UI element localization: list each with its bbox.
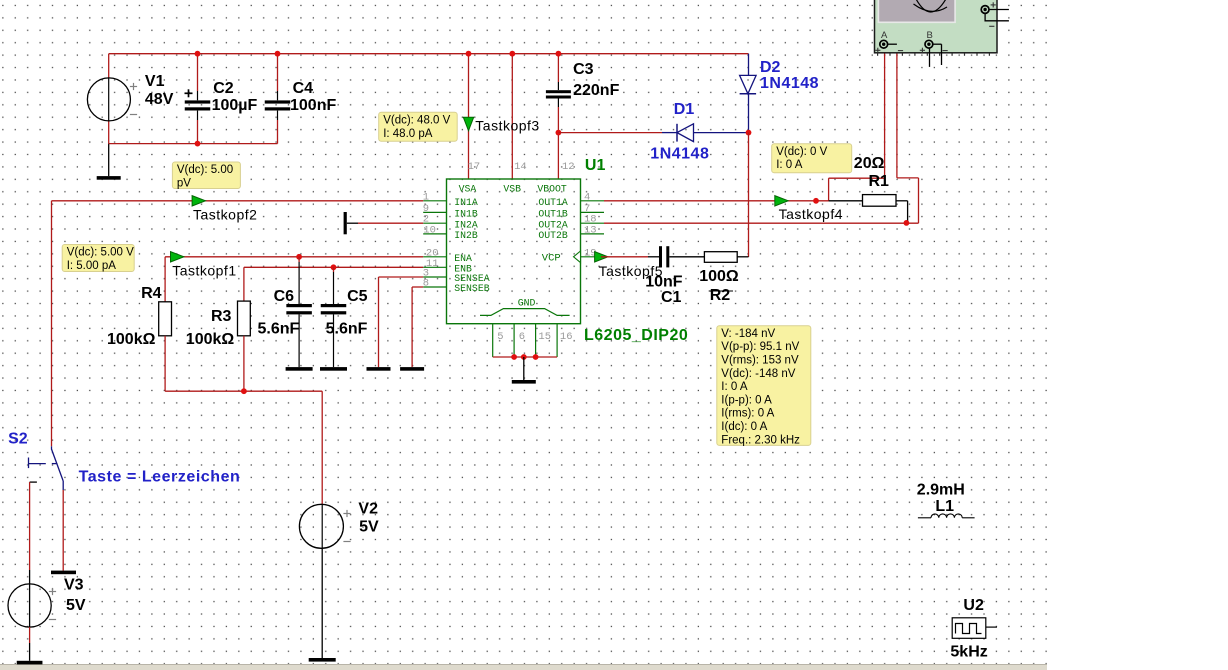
label 220nF: [573, 82, 619, 99]
svg-text:Taste = Leerzeichen: Taste = Leerzeichen: [79, 469, 241, 486]
pin 7: [584, 203, 590, 215]
GND bracket: [480, 309, 570, 316]
wire VCP to C1: [601, 256, 659, 258]
svg-text:C2: C2: [213, 80, 234, 97]
label Tastkopf4: [779, 206, 843, 222]
svg-text:100nF: 100nF: [290, 97, 336, 114]
svg-text:OUT2A: OUT2A: [538, 219, 568, 230]
svg-text:OUT1B: OUT1B: [538, 209, 568, 220]
ground V2: [309, 658, 336, 662]
svg-text:L1: L1: [935, 498, 954, 515]
svg-text:5V: 5V: [66, 597, 86, 614]
pin stub right: [581, 233, 605, 235]
wire R1 right lead: [896, 201, 908, 223]
label R4 value: [107, 331, 156, 348]
pin stub left: [423, 200, 446, 202]
pin name OUT2A: [538, 219, 568, 230]
pin name OUT1A: [538, 197, 568, 208]
svg-text:U2: U2: [963, 597, 984, 614]
label 48V: [145, 91, 174, 108]
capacitor C3: [546, 54, 571, 133]
pin 20: [426, 247, 439, 259]
svg-text:VCP: VCP: [542, 253, 561, 265]
svg-text:6: 6: [519, 331, 525, 343]
source V1: [87, 54, 137, 144]
label D1: [674, 101, 695, 118]
label R4: [141, 285, 162, 302]
probe Tastkopf5 arrow: [595, 252, 609, 262]
svg-text:IN2A: IN2A: [454, 219, 478, 230]
label U2: [963, 597, 984, 614]
label L1 value: [917, 481, 965, 498]
label S2 key: [79, 469, 241, 486]
svg-text:C6: C6: [274, 288, 295, 305]
wire SENSEA: [379, 277, 424, 367]
label V3: [64, 577, 84, 594]
ground SENSEA: [367, 367, 391, 371]
pin name SENSEB: [454, 283, 489, 294]
svg-text:C4: C4: [293, 80, 314, 97]
pin name SENSEA: [454, 273, 489, 284]
svg-text:V(dc): 5.00: V(dc): 5.00: [177, 164, 233, 176]
svg-text:1N4148: 1N4148: [650, 146, 709, 163]
pin name VCP: [542, 253, 561, 265]
wire scope A minus drop: [897, 46, 919, 223]
source V2: [299, 504, 350, 566]
svg-text:R4: R4: [141, 285, 162, 302]
label C6 value: [258, 321, 300, 338]
wire R2 right lead: [737, 256, 748, 258]
pin name VSB: [503, 184, 521, 195]
svg-text:L6205_DIP20: L6205_DIP20: [584, 327, 688, 344]
wire bottom node: [165, 390, 322, 392]
label R2 value: [699, 268, 739, 285]
label U2 value: [950, 644, 987, 661]
svg-text:V(dc): -148 nV: V(dc): -148 nV: [721, 368, 795, 380]
svg-text:1: 1: [423, 191, 429, 203]
label Tastkopf2: [193, 207, 257, 223]
wire trigger stub plus: [989, 9, 1009, 11]
pin stub left: [423, 222, 446, 224]
label D1 value: [650, 146, 709, 163]
wire R1 left lead: [829, 200, 863, 202]
svg-text:S2: S2: [8, 431, 28, 448]
label C2: [213, 80, 234, 97]
capacitor C6: [286, 257, 312, 367]
wire ENA: [165, 256, 423, 258]
label C5 value: [326, 321, 368, 338]
ground S2: [51, 571, 76, 575]
pin stub right: [581, 211, 605, 213]
svg-text:ENA: ENA: [454, 253, 472, 264]
junction rail-C4: [275, 51, 281, 57]
label U1: [585, 157, 606, 174]
pin 2: [423, 214, 429, 226]
capacitor C4: [265, 54, 291, 144]
pin stub bottom: [535, 324, 537, 357]
svg-text:10nF: 10nF: [645, 273, 683, 290]
label R1: [869, 173, 890, 190]
svg-text:V(dc): 5.00 V: V(dc): 5.00 V: [67, 247, 134, 259]
svg-text:V: -184 nV: V: -184 nV: [721, 328, 775, 340]
label 100nF: [290, 97, 336, 114]
capacitor C2: [185, 54, 211, 144]
svg-text:5: 5: [497, 331, 503, 343]
switch S2 actuator: [29, 458, 58, 469]
junction ENA-C6: [296, 254, 302, 260]
terminator bar pin2: [344, 212, 347, 234]
label Tastkopf3: [475, 118, 539, 134]
ground SENSEB: [400, 367, 424, 371]
svg-text:U1: U1: [585, 157, 606, 174]
junction railbot-C2: [195, 141, 201, 147]
pin 8: [423, 278, 429, 290]
probe Tastkopf3 arrow: [463, 117, 473, 131]
probe Tastkopf2 arrow: [192, 196, 206, 206]
junction rail-VSA: [466, 51, 472, 57]
svg-text:8: 8: [423, 278, 429, 290]
wire V2 riser: [321, 391, 323, 504]
capacitor C1: [659, 246, 669, 267]
wire scope B plus stub: [929, 48, 931, 67]
svg-text:13: 13: [584, 224, 597, 236]
oscilloscope waveform B: [914, 4, 948, 11]
wire VBOOT riser: [557, 133, 559, 179]
svg-text:V(rms): 153 nV: V(rms): 153 nV: [721, 355, 799, 367]
pin stub left: [423, 256, 446, 258]
wire ENA to R4: [164, 257, 166, 302]
capacitor C5: [321, 267, 347, 367]
pin name IN1A: [454, 197, 478, 208]
probe box Tastkopf2 value: [172, 162, 240, 190]
wire ENB to R3: [243, 267, 245, 301]
junction node-D2: [746, 130, 752, 136]
pin 18: [584, 214, 597, 226]
pin 15: [538, 331, 551, 343]
wire scope A minus stub: [888, 43, 897, 45]
pin 10: [423, 224, 436, 236]
svg-text:2.9mH: 2.9mH: [917, 481, 965, 498]
oscilloscope XSC1 body: [875, 0, 998, 53]
svg-text:VSA: VSA: [459, 184, 477, 195]
pin stub bottom: [513, 324, 515, 357]
svg-text:V(dc): 0 V: V(dc): 0 V: [776, 146, 827, 158]
pin 1: [423, 191, 429, 203]
probe box measurement values: [717, 326, 811, 447]
wire trigger stub minus: [985, 13, 1009, 20]
label V2: [358, 501, 378, 518]
pin name ENA: [454, 253, 472, 264]
oscilloscope waveform A: [916, 0, 947, 12]
pin 5: [497, 331, 503, 343]
junction node-C3: [556, 130, 562, 136]
wire OUT1A: [604, 200, 829, 202]
oscilloscope terminal B: [920, 30, 948, 53]
pin name OUT2B: [538, 230, 568, 241]
pin name VBOOT: [537, 184, 567, 195]
junction gnd 6: [511, 354, 517, 360]
pin name IN2B: [454, 230, 478, 241]
wire IN1A vertical: [51, 201, 53, 446]
pin 14: [514, 161, 527, 173]
svg-text:C3: C3: [573, 61, 594, 78]
label C1: [661, 289, 682, 306]
pin stub left: [423, 276, 446, 278]
junction ENB-C5: [331, 264, 337, 270]
junction R1-OUT2A: [904, 220, 910, 226]
svg-text:48V: 48V: [145, 91, 174, 108]
svg-text:OUT1A: OUT1A: [538, 197, 568, 208]
pin 11: [426, 258, 439, 270]
svg-text:I: 0 A: I: 0 A: [776, 159, 803, 171]
svg-text:16: 16: [560, 331, 573, 343]
pin name OUT1B: [538, 209, 568, 220]
pin stub bottom: [492, 324, 494, 357]
label D2 value: [760, 75, 819, 92]
pin 19: [584, 247, 597, 259]
pin VCP edge marker: [574, 251, 581, 263]
svg-text:100kΩ: 100kΩ: [107, 331, 156, 348]
svg-text:17: 17: [468, 161, 481, 173]
bottom scrollbar: [0, 665, 1047, 670]
svg-text:Tastkopf3: Tastkopf3: [475, 118, 539, 134]
label D2: [760, 59, 781, 76]
label R3: [211, 308, 232, 325]
pin 9: [423, 203, 429, 215]
svg-text:R2: R2: [710, 287, 731, 304]
svg-text:V1: V1: [145, 73, 165, 90]
pin stub right: [581, 200, 605, 202]
svg-text:I(rms): 0 A: I(rms): 0 A: [721, 408, 774, 420]
probe Tastkopf4 arrow: [775, 196, 789, 206]
wire OUT2A: [604, 222, 919, 224]
svg-text:10: 10: [423, 224, 436, 236]
svg-text:R3: R3: [211, 308, 232, 325]
svg-text:A: A: [881, 30, 888, 41]
label V1: [145, 73, 165, 90]
pin 16: [560, 331, 573, 343]
label L6205_DIP20: [584, 327, 688, 344]
svg-text:Freq.: 2.30 kHz: Freq.: 2.30 kHz: [721, 434, 800, 446]
probe Tastkopf1 arrow: [171, 252, 185, 262]
svg-text:VSB: VSB: [503, 184, 521, 195]
label C6: [274, 288, 295, 305]
svg-text:20Ω: 20Ω: [854, 155, 885, 172]
pin name GND: [518, 298, 536, 309]
svg-text:I: 0 A: I: 0 A: [721, 381, 748, 393]
svg-text:100Ω: 100Ω: [699, 268, 739, 285]
svg-text:IN1A: IN1A: [454, 197, 478, 208]
svg-text:5.6nF: 5.6nF: [326, 321, 368, 338]
wire VSB riser: [511, 54, 513, 179]
pin stub left: [423, 286, 446, 288]
IC U1 body: [447, 179, 581, 324]
junction R3 bottom: [241, 388, 247, 394]
wire scope B minus stub: [933, 44, 942, 65]
svg-text:Tastkopf4: Tastkopf4: [779, 206, 843, 222]
junction rail-C2: [195, 51, 201, 57]
ground below V1: [97, 144, 121, 180]
svg-text:12: 12: [562, 161, 575, 173]
svg-text:V(p-p): 95.1 nV: V(p-p): 95.1 nV: [721, 341, 799, 353]
pin stub left: [423, 233, 446, 235]
label V3 value: [66, 597, 86, 614]
svg-text:C1: C1: [661, 289, 682, 306]
svg-text:VBOOT: VBOOT: [537, 184, 567, 195]
junction rail-VSB: [509, 51, 515, 57]
ground C5: [320, 367, 347, 371]
oscilloscope bottom ticks: [877, 53, 990, 56]
svg-text:15: 15: [538, 331, 551, 343]
junction gnd 15: [533, 354, 539, 360]
label C1 value: [645, 273, 683, 290]
label R2: [709, 287, 733, 304]
junction OUT1A probe: [813, 198, 819, 204]
label 100uF: [212, 97, 258, 114]
oscilloscope trigger terminal: [981, 2, 996, 26]
svg-text:I(dc): 0 A: I(dc): 0 A: [721, 421, 767, 433]
svg-text:SENSEB: SENSEB: [454, 283, 489, 294]
svg-text:IN1B: IN1B: [454, 209, 478, 220]
pin 17: [468, 161, 481, 173]
pin stub bottom: [556, 324, 558, 357]
label S2: [8, 431, 28, 448]
junction gnd mid: [521, 354, 527, 360]
wire VSA riser: [468, 54, 470, 179]
wire D2 node down to R2: [748, 133, 750, 257]
pin stub left: [423, 211, 446, 213]
diode D1: [677, 124, 694, 142]
svg-text:5V: 5V: [359, 519, 379, 536]
svg-text:R1: R1: [869, 173, 890, 190]
wire S2 down: [62, 490, 64, 571]
pin 13: [584, 224, 597, 236]
label Tastkopf1: [172, 262, 236, 278]
svg-text:GND: GND: [518, 298, 536, 309]
resistor R1: [863, 195, 897, 207]
pin stub VCP: [581, 256, 602, 258]
svg-text:D1: D1: [674, 101, 695, 118]
wire SENSEB: [412, 287, 423, 367]
label C5: [347, 288, 368, 305]
wire ENB: [244, 266, 423, 268]
svg-text:4: 4: [584, 191, 590, 203]
resistor R2: [704, 252, 737, 263]
svg-text:1N4148: 1N4148: [760, 75, 819, 92]
wire IN2A: [347, 222, 423, 224]
wire scope A plus drop: [829, 46, 885, 201]
pin name ENB: [454, 264, 472, 275]
svg-text:I: 48.0 pA: I: 48.0 pA: [383, 128, 433, 140]
svg-text:100µF: 100µF: [212, 97, 258, 114]
probe box Tastkopf1 value: [62, 245, 134, 273]
svg-text:220nF: 220nF: [573, 82, 619, 99]
svg-text:I(p-p): 0 A: I(p-p): 0 A: [721, 394, 772, 406]
svg-text:100kΩ: 100kΩ: [186, 331, 235, 348]
wire R3 bottom: [243, 336, 245, 391]
label C3: [573, 61, 594, 78]
svg-text:V3: V3: [64, 577, 84, 594]
pin name IN1B: [454, 209, 478, 220]
svg-text:pV: pV: [177, 178, 191, 190]
label C4: [293, 80, 314, 97]
svg-text:Tastkopf2: Tastkopf2: [193, 207, 257, 223]
wire IN1A: [52, 200, 424, 202]
source V3: [8, 482, 56, 661]
probe box Tastkopf4 value: [772, 144, 852, 173]
svg-text:C5: C5: [347, 288, 368, 305]
label R1 value: [854, 155, 885, 172]
wire V2 to ground: [321, 566, 323, 658]
ground V3: [17, 661, 43, 665]
ground below IC: [512, 357, 536, 384]
svg-text:5.6nF: 5.6nF: [258, 321, 300, 338]
label L1: [935, 498, 954, 515]
pin name IN2A: [454, 219, 478, 230]
oscilloscope terminal A: [875, 30, 903, 53]
label Tastkopf5: [599, 263, 663, 279]
resistor R3: [238, 301, 251, 336]
label R3 value: [186, 331, 235, 348]
label V2 value: [359, 519, 379, 536]
pin name VSA: [459, 184, 477, 195]
svg-text:V(dc): 48.0 V: V(dc): 48.0 V: [383, 115, 450, 127]
wire R4 bottom: [164, 336, 166, 391]
wire bottom rail: [109, 143, 278, 145]
resistor R4: [159, 302, 172, 336]
svg-text:V2: V2: [358, 501, 378, 518]
wire C1 to R2: [669, 256, 704, 258]
wire node D1 horizontal: [558, 132, 748, 134]
pin 12: [562, 161, 575, 173]
pin stub right: [581, 222, 605, 224]
svg-text:OUT2B: OUT2B: [538, 230, 568, 241]
ground C6: [286, 367, 313, 371]
pin stub left: [423, 266, 446, 268]
inductor L1: [918, 514, 975, 518]
diode D2: [740, 54, 757, 133]
probe box Tastkopf3 value: [379, 112, 458, 141]
svg-text:5kHz: 5kHz: [950, 644, 987, 661]
junction rail-C3: [556, 51, 562, 57]
pin 6: [519, 331, 525, 343]
pin 3: [423, 268, 429, 280]
wire IC ground bus: [493, 356, 557, 358]
svg-text:B: B: [927, 30, 933, 41]
clock source U2: [952, 618, 997, 639]
oscilloscope screen: [878, 0, 955, 22]
pin 4: [584, 191, 590, 203]
svg-text:14: 14: [514, 161, 527, 173]
svg-text:I: 5.00 pA: I: 5.00 pA: [67, 260, 117, 272]
svg-text:D2: D2: [760, 59, 781, 76]
svg-text:Tastkopf1: Tastkopf1: [172, 262, 236, 278]
switch S2 blade: [52, 446, 64, 490]
svg-text:IN2B: IN2B: [454, 230, 478, 241]
wire top 48V rail: [109, 53, 749, 55]
